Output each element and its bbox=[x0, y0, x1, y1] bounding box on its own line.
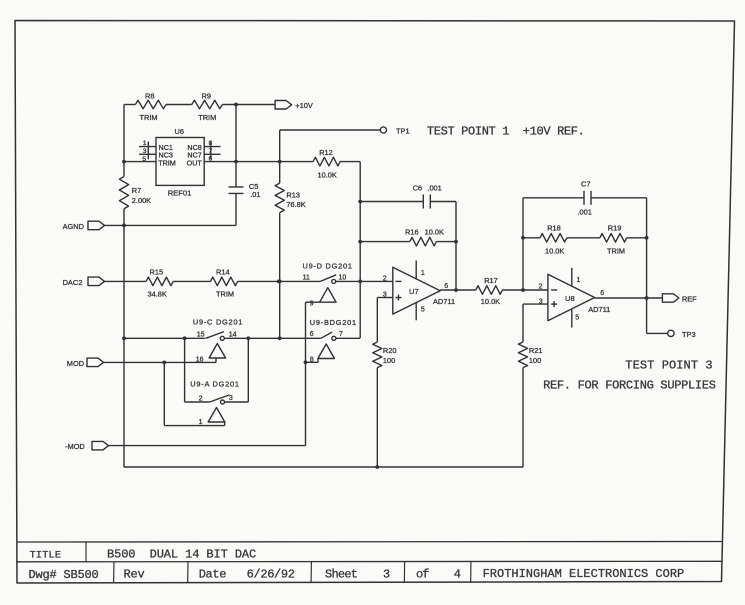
svg-text:8: 8 bbox=[310, 357, 314, 364]
svg-text:2.00K: 2.00K bbox=[132, 196, 151, 205]
svg-text:6: 6 bbox=[444, 283, 448, 290]
svg-text:Rev: Rev bbox=[124, 568, 145, 582]
svg-text:B500 DUAL 14 BIT DAC: B500 DUAL 14 BIT DAC bbox=[107, 548, 256, 562]
svg-text:7: 7 bbox=[209, 148, 213, 155]
svg-text:TRIM: TRIM bbox=[198, 113, 216, 122]
svg-text:TEST POINT 3: TEST POINT 3 bbox=[625, 358, 712, 372]
svg-text:TRIM: TRIM bbox=[607, 246, 625, 255]
svg-text:10.0K: 10.0K bbox=[481, 297, 500, 306]
svg-text:5: 5 bbox=[421, 307, 425, 314]
svg-text:Sheet 3: Sheet 3 bbox=[325, 567, 390, 581]
svg-text:10.0K: 10.0K bbox=[318, 170, 337, 179]
svg-text:TRIM: TRIM bbox=[140, 113, 158, 122]
svg-text:.001: .001 bbox=[578, 207, 592, 216]
svg-text:7: 7 bbox=[339, 331, 343, 338]
svg-text:11: 11 bbox=[303, 275, 310, 282]
svg-text:C6: C6 bbox=[413, 184, 422, 193]
svg-text:MOD: MOD bbox=[67, 359, 84, 368]
svg-text:TP1: TP1 bbox=[396, 126, 410, 135]
svg-text:1: 1 bbox=[577, 277, 581, 284]
svg-text:.01: .01 bbox=[250, 190, 260, 199]
svg-text:R15: R15 bbox=[150, 268, 164, 277]
svg-text:FROTHINGHAM ELECTRONICS CORP: FROTHINGHAM ELECTRONICS CORP bbox=[483, 567, 685, 581]
svg-text:R14: R14 bbox=[216, 268, 230, 277]
svg-text:C7: C7 bbox=[581, 180, 590, 189]
svg-text:+10V: +10V bbox=[295, 101, 313, 110]
svg-text:U9-C DG201: U9-C DG201 bbox=[193, 318, 243, 327]
svg-text:9: 9 bbox=[310, 301, 314, 308]
svg-text:TEST POINT 1 +10V REF.: TEST POINT 1 +10V REF. bbox=[427, 124, 585, 138]
svg-text:2: 2 bbox=[538, 283, 542, 290]
svg-text:10.0K: 10.0K bbox=[425, 228, 444, 237]
svg-text:TRIM: TRIM bbox=[216, 289, 234, 298]
svg-text:R16: R16 bbox=[405, 228, 419, 237]
svg-text:U9-A DG201: U9-A DG201 bbox=[190, 380, 239, 389]
svg-text:TITLE: TITLE bbox=[30, 549, 62, 561]
svg-text:R7: R7 bbox=[132, 186, 141, 195]
svg-text:10.0K: 10.0K bbox=[545, 246, 564, 255]
svg-text:-MOD: -MOD bbox=[65, 442, 85, 451]
svg-text:5: 5 bbox=[142, 156, 146, 163]
svg-text:R9: R9 bbox=[202, 91, 211, 100]
svg-text:AGND: AGND bbox=[63, 222, 84, 231]
svg-text:34.8K: 34.8K bbox=[148, 289, 167, 298]
svg-text:6: 6 bbox=[310, 331, 314, 338]
svg-text:TRIM: TRIM bbox=[158, 158, 176, 167]
svg-text:10: 10 bbox=[339, 275, 347, 282]
svg-text:6: 6 bbox=[600, 290, 604, 297]
svg-text:REF. FOR FORCING SUPPLIES: REF. FOR FORCING SUPPLIES bbox=[543, 378, 716, 392]
svg-text:2: 2 bbox=[383, 276, 387, 283]
svg-text:100: 100 bbox=[383, 356, 395, 365]
svg-text:76.8K: 76.8K bbox=[286, 200, 305, 209]
svg-text:100: 100 bbox=[529, 356, 541, 365]
svg-text:R20: R20 bbox=[383, 346, 397, 355]
svg-text:15: 15 bbox=[197, 331, 205, 338]
svg-text:DAC2: DAC2 bbox=[63, 278, 83, 287]
svg-text:.001: .001 bbox=[427, 184, 441, 193]
svg-text:14: 14 bbox=[229, 331, 237, 338]
svg-text:AD711: AD711 bbox=[588, 305, 610, 314]
svg-text:U8: U8 bbox=[565, 294, 575, 303]
svg-text:3: 3 bbox=[143, 148, 147, 155]
svg-text:R8: R8 bbox=[145, 91, 154, 100]
svg-text:R17: R17 bbox=[484, 276, 498, 285]
svg-text:R18: R18 bbox=[547, 224, 561, 233]
svg-text:U6: U6 bbox=[175, 127, 184, 136]
svg-text:8: 8 bbox=[209, 140, 213, 147]
svg-text:1: 1 bbox=[143, 140, 147, 147]
svg-text:5: 5 bbox=[575, 314, 579, 321]
svg-text:TP3: TP3 bbox=[682, 330, 696, 339]
svg-text:U9-D DG201: U9-D DG201 bbox=[303, 262, 353, 271]
svg-text:R13: R13 bbox=[286, 190, 300, 199]
svg-text:Date 6/26/92: Date 6/26/92 bbox=[199, 568, 295, 582]
svg-text:REF01: REF01 bbox=[168, 188, 192, 197]
svg-text:2: 2 bbox=[199, 395, 203, 402]
svg-text:3: 3 bbox=[229, 395, 233, 402]
svg-text:R12: R12 bbox=[319, 148, 333, 157]
svg-text:OUT: OUT bbox=[187, 158, 203, 167]
svg-text:R19: R19 bbox=[608, 224, 622, 233]
svg-text:REF: REF bbox=[682, 294, 697, 303]
svg-text:U9-BDG201: U9-BDG201 bbox=[310, 318, 357, 327]
svg-text:1: 1 bbox=[199, 419, 203, 426]
svg-text:1: 1 bbox=[421, 270, 425, 277]
svg-text:AD711: AD711 bbox=[433, 297, 455, 306]
svg-text:Dwg# SB500: Dwg# SB500 bbox=[29, 568, 99, 582]
svg-text:R21: R21 bbox=[529, 346, 543, 355]
svg-text:of 4: of 4 bbox=[416, 567, 461, 581]
svg-text:U7: U7 bbox=[409, 287, 419, 296]
